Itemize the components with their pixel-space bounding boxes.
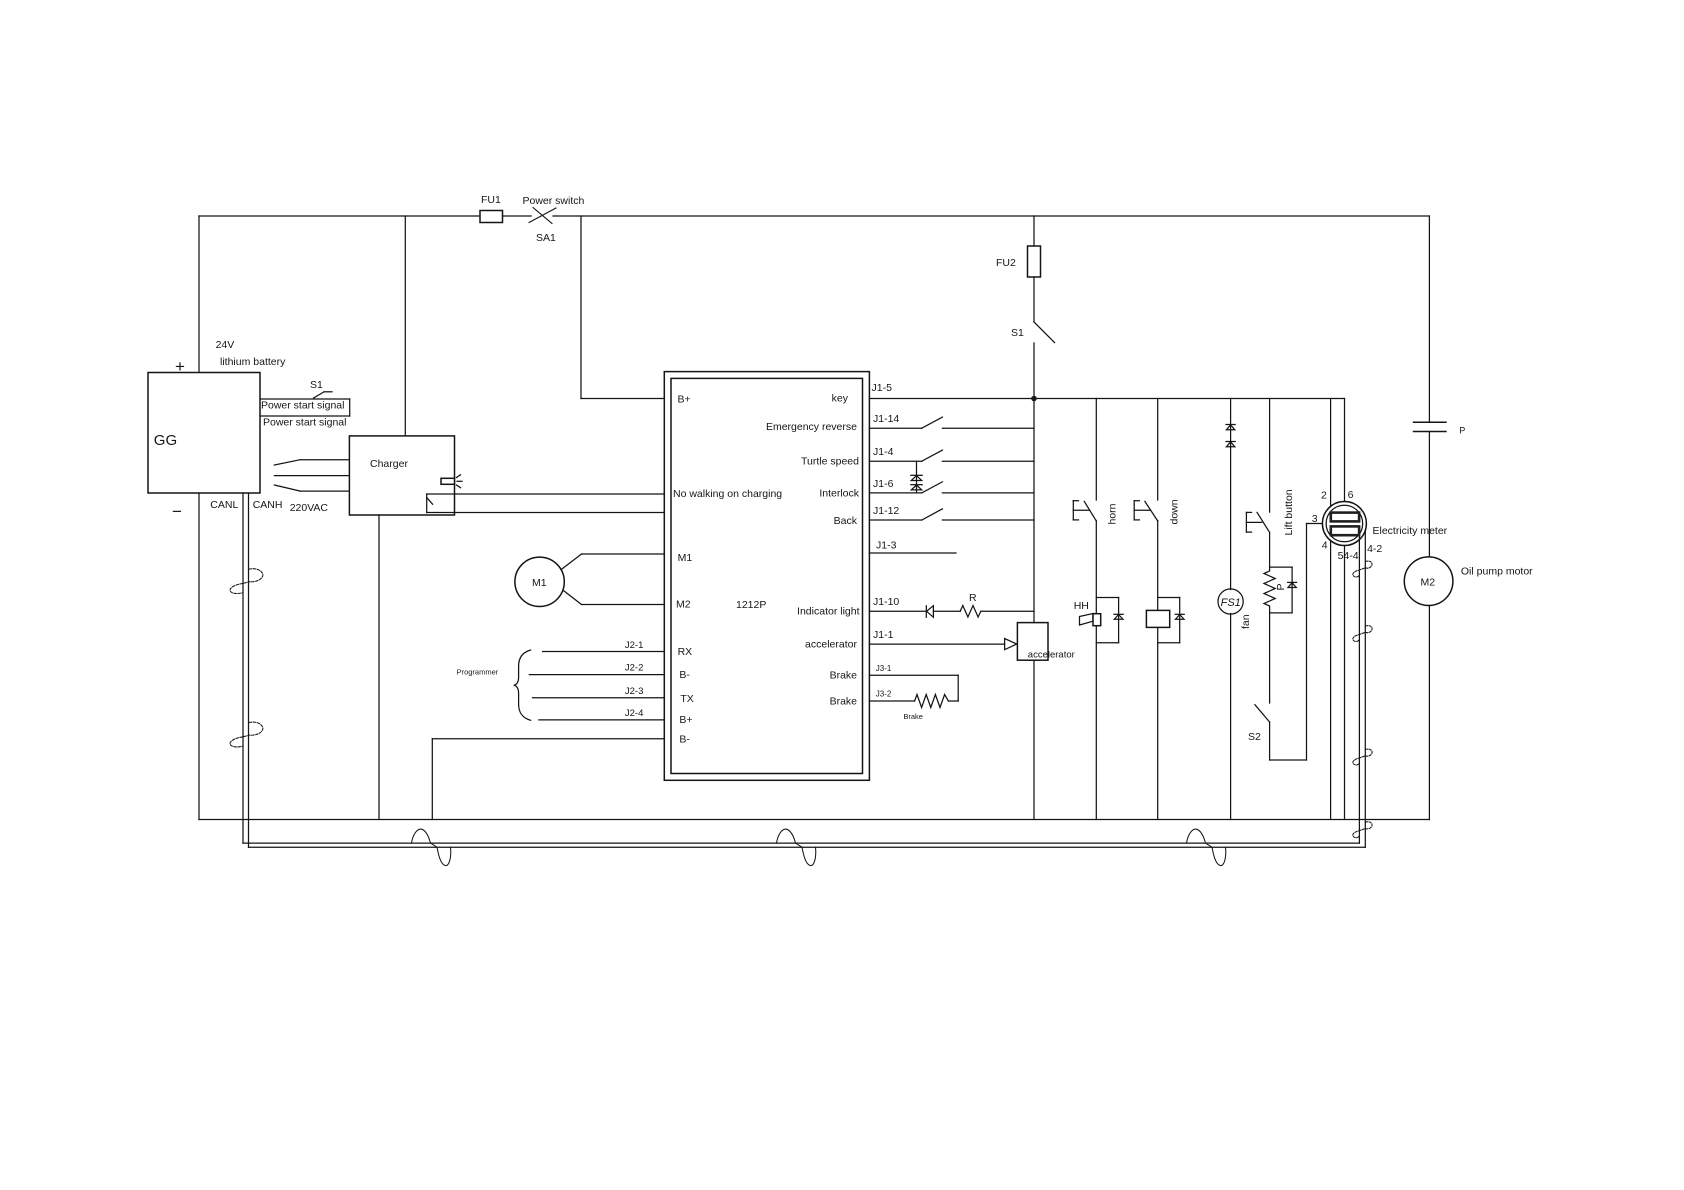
diode D2 on J1-10 bbox=[926, 606, 933, 618]
svg-text:B-: B- bbox=[679, 734, 690, 746]
wire meter pin4 bbox=[1322, 540, 1331, 820]
horn HH device bbox=[1074, 600, 1101, 626]
svg-text:Power start signal: Power start signal bbox=[261, 400, 344, 412]
pushbutton lift button bbox=[1246, 489, 1295, 535]
svg-text:R: R bbox=[969, 592, 977, 604]
svg-text:fan: fan bbox=[1240, 614, 1252, 629]
wire power start signal pair bbox=[260, 399, 350, 416]
svg-text:24V: 24V bbox=[216, 339, 235, 351]
charger cable stub A bbox=[274, 460, 349, 465]
svg-text:Lift button: Lift button bbox=[1283, 489, 1295, 535]
svg-text:accelerator: accelerator bbox=[805, 639, 857, 651]
svg-text:CANH: CANH bbox=[253, 499, 283, 511]
svg-text:J1-10: J1-10 bbox=[873, 596, 899, 608]
wire J2-4 B+ bbox=[539, 708, 664, 720]
controller right pin labels bbox=[766, 393, 860, 708]
wire M2 bbox=[564, 591, 664, 605]
svg-text:FS1: FS1 bbox=[1221, 597, 1241, 609]
twisted pair mark bus left bbox=[412, 829, 451, 865]
charger interlock switch bbox=[427, 494, 433, 513]
programmer brace bbox=[457, 650, 531, 720]
wire J1-1 accelerator bbox=[869, 629, 1004, 644]
wire meter pin6 bbox=[1345, 399, 1354, 502]
svg-text:Back: Back bbox=[834, 515, 858, 527]
pushbutton horn bbox=[1073, 501, 1118, 525]
wire meter CAN A bbox=[1359, 537, 1382, 843]
twisted pair mark bus corner bbox=[1353, 822, 1372, 838]
svg-text:P: P bbox=[1275, 583, 1287, 590]
diode D3 horn flyback bbox=[1096, 598, 1123, 643]
svg-text:Oil pump motor: Oil pump motor bbox=[1461, 566, 1533, 578]
svg-text:GG: GG bbox=[154, 432, 177, 449]
wire CAN bus upper bbox=[243, 842, 1359, 844]
diode pair D1 between J1-4 and J1-6 bbox=[911, 461, 922, 493]
wire lift button branch bbox=[1269, 399, 1271, 568]
svg-text:Electricity meter: Electricity meter bbox=[1373, 525, 1448, 537]
svg-text:Programmer: Programmer bbox=[457, 668, 499, 677]
wire CANL vertical bbox=[242, 493, 244, 843]
svg-text:J2-3: J2-3 bbox=[625, 686, 643, 697]
svg-text:Interlock: Interlock bbox=[819, 487, 859, 499]
svg-text:J1-4: J1-4 bbox=[873, 446, 894, 458]
wire down branch bbox=[1157, 399, 1159, 820]
charger cable stub B bbox=[274, 475, 349, 477]
svg-text:HH: HH bbox=[1074, 600, 1089, 612]
svg-text:J3-1: J3-1 bbox=[876, 664, 892, 673]
charger LED indicator bbox=[441, 475, 462, 488]
wire J1-12 back with switch bbox=[869, 505, 1034, 520]
svg-text:lithium battery: lithium battery bbox=[220, 356, 286, 368]
svg-text:Indicator light: Indicator light bbox=[797, 606, 860, 618]
svg-text:M2: M2 bbox=[676, 599, 691, 611]
svg-text:J3-2: J3-2 bbox=[876, 690, 892, 699]
capacitor P bbox=[1413, 422, 1466, 435]
svg-text:Brake: Brake bbox=[830, 670, 858, 682]
svg-text:CANL: CANL bbox=[210, 499, 238, 511]
svg-text:1212P: 1212P bbox=[736, 599, 766, 611]
svg-text:J1-12: J1-12 bbox=[873, 505, 899, 517]
svg-text:Brake: Brake bbox=[830, 696, 858, 708]
svg-text:TX: TX bbox=[680, 693, 693, 705]
wire charger bottom drop bbox=[378, 515, 380, 820]
svg-text:B-: B- bbox=[679, 669, 690, 681]
svg-text:horn: horn bbox=[1106, 503, 1118, 524]
charger box bbox=[349, 436, 454, 515]
accelerator box bbox=[1017, 623, 1074, 661]
svg-text:S1: S1 bbox=[310, 379, 323, 391]
controller left pin labels bbox=[673, 394, 782, 746]
svg-text:54-4: 54-4 bbox=[1338, 550, 1359, 562]
wire M2 to bus bbox=[1428, 606, 1430, 820]
wire CANH vertical bbox=[248, 493, 250, 847]
wire M1 bbox=[561, 554, 664, 570]
wire meter pin2 bbox=[1321, 399, 1331, 507]
wire CAN bus lower bbox=[249, 846, 1366, 848]
resistor R on J1-10 bbox=[960, 592, 981, 617]
wire B- bottom left bbox=[432, 739, 664, 820]
wire B+ drop to controller bbox=[581, 216, 664, 399]
wire no walking on charging upper bbox=[427, 493, 665, 495]
fuse FU2 bbox=[996, 216, 1041, 277]
svg-text:S2: S2 bbox=[1248, 731, 1261, 743]
svg-text:Charger: Charger bbox=[370, 458, 408, 470]
relay coil K1 down bbox=[1146, 610, 1169, 627]
svg-text:No walking on charging: No walking on charging bbox=[673, 488, 782, 500]
motor M2 oil pump bbox=[1404, 557, 1533, 606]
svg-text:3: 3 bbox=[1312, 513, 1318, 525]
svg-text:220VAC: 220VAC bbox=[290, 502, 329, 514]
twisted pair mark bus right bbox=[1187, 829, 1226, 865]
resistor P with diode D6 bbox=[1264, 567, 1297, 613]
svg-text:4-2: 4-2 bbox=[1367, 543, 1382, 555]
svg-text:J1-5: J1-5 bbox=[872, 382, 893, 394]
svg-text:J2-2: J2-2 bbox=[625, 663, 643, 674]
wire battery minus drop bbox=[198, 493, 200, 820]
wire battery plus drop bbox=[198, 216, 200, 373]
wire J3-1 brake bbox=[869, 664, 958, 701]
wire accelerator drop bbox=[1033, 399, 1035, 820]
svg-text:P: P bbox=[1459, 426, 1465, 436]
wire S2 to meter pin3 bbox=[1270, 524, 1323, 761]
diode pair D5 fan bbox=[1226, 425, 1235, 447]
svg-text:down: down bbox=[1169, 499, 1181, 524]
fuse FU1 bbox=[480, 194, 503, 223]
switch S1 power start signal bbox=[310, 379, 332, 398]
wire horn branch bbox=[1095, 399, 1097, 820]
wire top bus right drop to capacitor bbox=[1428, 216, 1430, 422]
battery GG 24V lithium battery bbox=[148, 339, 286, 521]
wire fan branch bbox=[1230, 399, 1232, 820]
svg-text:J2-1: J2-1 bbox=[625, 640, 643, 651]
svg-text:+: + bbox=[175, 357, 185, 376]
twisted pair mark bus middle bbox=[777, 829, 816, 865]
wire meter CAN B bbox=[1364, 531, 1366, 847]
svg-text:M2: M2 bbox=[1421, 577, 1436, 589]
diode D4 down flyback bbox=[1158, 598, 1185, 643]
svg-text:4: 4 bbox=[1322, 540, 1328, 552]
svg-text:J1-14: J1-14 bbox=[873, 413, 899, 425]
svg-text:M1: M1 bbox=[678, 552, 693, 564]
svg-text:RX: RX bbox=[678, 646, 693, 658]
controller U1 1212P box bbox=[664, 372, 869, 781]
svg-text:accelerator: accelerator bbox=[1028, 650, 1075, 661]
motor M1 bbox=[515, 557, 564, 606]
wire J3-2 brake with resistor bbox=[869, 690, 958, 722]
twisted pair mark CAN upper bbox=[230, 569, 263, 594]
svg-text:B+: B+ bbox=[679, 714, 692, 726]
wire J1-6 interlock with switch bbox=[869, 478, 1034, 493]
svg-text:J1-6: J1-6 bbox=[873, 478, 894, 490]
twisted pair mark meter lower bbox=[1353, 749, 1372, 765]
charger cable stub C bbox=[274, 485, 349, 491]
wire top bus bbox=[199, 215, 1429, 217]
switch S1 key switch bbox=[1011, 277, 1055, 399]
wire capacitor to motor M2 bbox=[1428, 432, 1430, 557]
svg-text:Emergency reverse: Emergency reverse bbox=[766, 421, 857, 433]
wire J2-3 TX bbox=[533, 686, 665, 698]
svg-text:Turtle speed: Turtle speed bbox=[801, 456, 859, 468]
svg-text:J2-4: J2-4 bbox=[625, 708, 643, 719]
svg-text:Brake: Brake bbox=[903, 712, 923, 721]
wire J1-4 turtle speed with switch bbox=[869, 446, 1034, 461]
wire no walking on charging lower bbox=[427, 512, 665, 514]
twisted pair mark CAN lower bbox=[230, 722, 263, 747]
switch SA1 Power switch bbox=[523, 195, 585, 244]
twisted pair mark meter middle bbox=[1353, 626, 1372, 642]
wire J1-14 emergency reverse with switch bbox=[869, 413, 1034, 428]
svg-text:−: − bbox=[172, 502, 182, 521]
svg-text:key: key bbox=[832, 393, 849, 405]
buffer triangle accelerator input bbox=[1005, 639, 1017, 650]
pushbutton down bbox=[1134, 499, 1180, 524]
svg-text:6: 6 bbox=[1348, 489, 1354, 501]
svg-text:FU2: FU2 bbox=[996, 257, 1016, 269]
svg-text:Power switch: Power switch bbox=[523, 195, 585, 207]
svg-text:B+: B+ bbox=[678, 394, 691, 406]
twisted pair mark meter upper bbox=[1353, 561, 1372, 577]
svg-text:FU1: FU1 bbox=[481, 194, 501, 206]
svg-text:J1-1: J1-1 bbox=[873, 629, 894, 641]
svg-text:2: 2 bbox=[1321, 490, 1327, 502]
wire J2-2 B- bbox=[529, 663, 664, 675]
svg-text:Power start signal: Power start signal bbox=[263, 417, 346, 429]
electricity meter bbox=[1322, 502, 1447, 546]
switch S2 bbox=[1248, 613, 1270, 760]
wire charger top drop bbox=[404, 216, 406, 436]
svg-text:S1: S1 bbox=[1011, 327, 1024, 339]
wire main bottom bus bbox=[199, 819, 1429, 821]
wire J1-10 indicator light bbox=[869, 596, 1034, 611]
fan motor FS1 bbox=[1218, 589, 1252, 629]
svg-text:SA1: SA1 bbox=[536, 232, 556, 244]
wire key J1-5 bbox=[869, 382, 1344, 399]
wire J1-3 bbox=[869, 540, 956, 554]
node J1-5 junction bbox=[1031, 396, 1037, 402]
wire J2-1 RX bbox=[543, 640, 665, 652]
wire meter pin5 bbox=[1338, 546, 1359, 820]
svg-text:M1: M1 bbox=[532, 577, 547, 589]
svg-text:J1-3: J1-3 bbox=[876, 540, 897, 552]
